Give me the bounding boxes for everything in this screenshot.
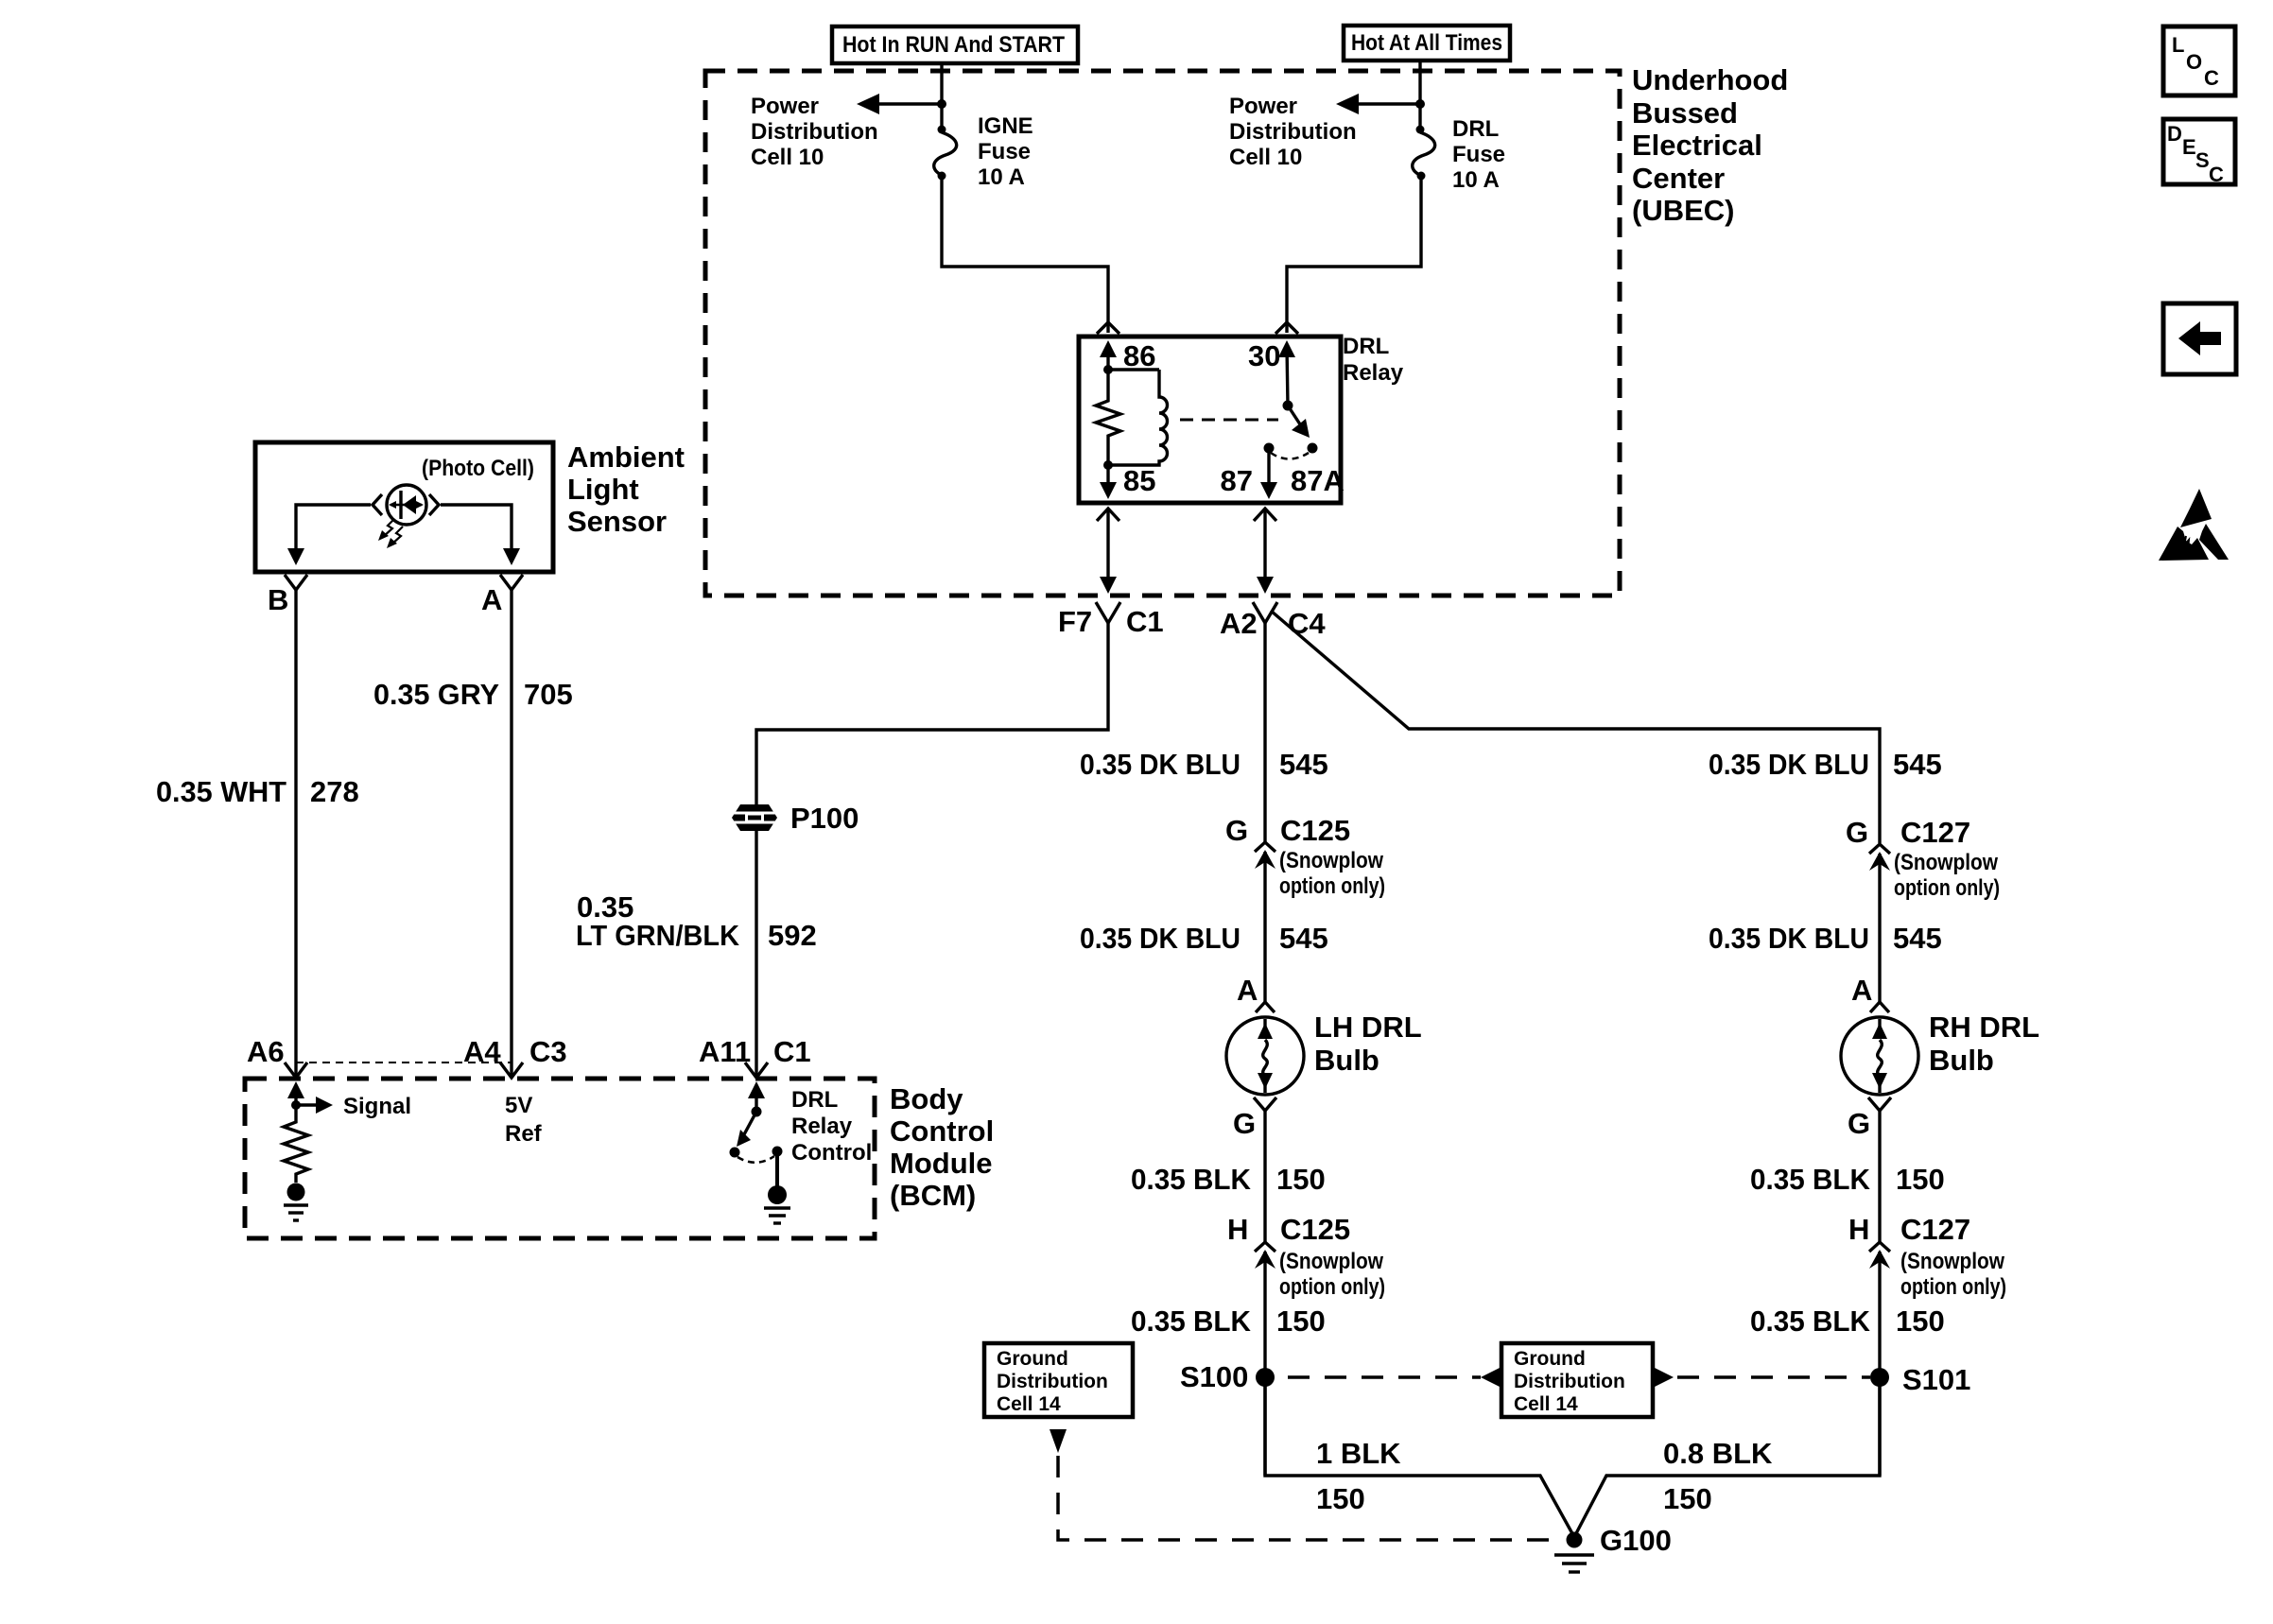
wire A2 to LH DRL bulb column xyxy=(1263,623,1266,843)
dashed wire S100 to ground dist box xyxy=(1288,1375,1481,1379)
svg-text:Fuse: Fuse xyxy=(978,139,1031,164)
svg-text:278: 278 xyxy=(310,775,359,808)
wire coil top xyxy=(1108,368,1159,371)
svg-text:C1: C1 xyxy=(773,1035,811,1068)
wire power distribution tap (left) xyxy=(862,102,942,105)
svg-text:A11: A11 xyxy=(699,1035,751,1068)
svg-text:option only): option only) xyxy=(1279,1274,1385,1300)
label 1 BLK 150 xyxy=(1316,1437,1401,1515)
arrowhead at UBEC border (left) xyxy=(1100,577,1117,594)
connector fork below sensor pin A xyxy=(500,575,523,590)
inductor relay coil xyxy=(1108,370,1168,465)
svg-text:B: B xyxy=(268,583,288,616)
svg-text:545: 545 xyxy=(1279,748,1328,781)
label Body Control Module (BCM) xyxy=(890,1082,994,1212)
arrowhead to S101 xyxy=(1653,1367,1674,1388)
svg-text:0.35 DK BLU: 0.35 DK BLU xyxy=(1080,922,1241,955)
wire A2/C4 diagonal branch to RH column xyxy=(1271,611,1880,843)
label F7 / C1 xyxy=(1058,605,1164,638)
lamp LH DRL Bulb xyxy=(1226,1017,1304,1095)
junction dot at DRL tap xyxy=(1415,99,1425,109)
svg-text:Bulb: Bulb xyxy=(1929,1044,1994,1077)
connector fork below RH bulb (pin G) xyxy=(1868,1097,1891,1111)
fuse DRL Fuse 10 A xyxy=(1413,126,1435,181)
relay box xyxy=(1079,337,1341,503)
svg-text:0.35 WHT: 0.35 WHT xyxy=(156,775,286,808)
splice S100 xyxy=(1256,1368,1275,1387)
wire DRL fuse to relay pin 30 xyxy=(1287,176,1421,333)
label 5V Ref xyxy=(505,1093,543,1147)
node Hot In RUN And START xyxy=(832,26,1078,63)
wire pin87 to UBEC border xyxy=(1263,509,1266,580)
contact 87 dot xyxy=(1264,443,1275,454)
svg-text:(Snowplow: (Snowplow xyxy=(1279,1249,1383,1274)
svg-text:Distribution: Distribution xyxy=(1514,1371,1625,1392)
label LH DRL Bulb xyxy=(1314,1011,1422,1077)
dashed connector link A6-A4 xyxy=(296,1062,512,1063)
contact dot right (BCM) xyxy=(772,1147,783,1157)
svg-text:option only): option only) xyxy=(1900,1274,2006,1300)
arrowhead left (power distribution right) xyxy=(1336,94,1359,114)
svg-text:0.35 BLK: 0.35 BLK xyxy=(1750,1304,1871,1338)
svg-text:Hot At All Times: Hot At All Times xyxy=(1351,30,1502,56)
connector fork below relay pin 85 xyxy=(1097,509,1119,521)
svg-text:Bussed: Bussed xyxy=(1632,96,1738,130)
svg-text:A2: A2 xyxy=(1220,607,1258,640)
svg-text:Distribution: Distribution xyxy=(1229,119,1357,145)
svg-text:G: G xyxy=(1225,814,1248,847)
wire sensor A to BCM A4 xyxy=(510,590,512,1078)
label 0.35 DK BLU 545 (RH lower) xyxy=(1709,922,1942,955)
label 0.35 DK BLU 545 (RH upper) xyxy=(1709,748,1942,781)
photocell internal circuit wires xyxy=(296,505,371,558)
svg-text:Control: Control xyxy=(791,1140,872,1166)
connector chevron above relay pin 86 xyxy=(1097,322,1119,334)
svg-text:DRL: DRL xyxy=(1452,116,1499,142)
svg-text:Signal: Signal xyxy=(343,1094,411,1119)
svg-text:(Photo Cell): (Photo Cell) xyxy=(422,456,534,481)
label DRL Relay Control xyxy=(791,1087,872,1166)
svg-text:A: A xyxy=(1851,974,1872,1007)
svg-text:150: 150 xyxy=(1316,1482,1365,1515)
svg-text:Cell 10: Cell 10 xyxy=(1229,145,1302,170)
wire LH bulb G down xyxy=(1263,1111,1266,1242)
node Ground Distribution Cell 14 (center) xyxy=(1501,1343,1653,1417)
svg-text:Power: Power xyxy=(751,94,819,119)
svg-text:S100: S100 xyxy=(1180,1360,1248,1393)
photocell diode xyxy=(389,491,424,519)
photocell circle xyxy=(387,485,426,525)
connector fork BCM pin A6 xyxy=(285,1063,307,1078)
svg-text:Cell 14: Cell 14 xyxy=(1514,1393,1578,1415)
svg-text:0.35 DK BLU: 0.35 DK BLU xyxy=(1709,922,1869,955)
connector C125 (lower, pin H) xyxy=(1227,1213,1385,1300)
wire C125 to S100 xyxy=(1263,1252,1266,1476)
label Power Distribution Cell 10 (right) xyxy=(1229,94,1357,170)
label DRL Relay xyxy=(1343,334,1404,386)
svg-text:C125: C125 xyxy=(1280,1213,1350,1246)
pin 30 arrow xyxy=(1248,339,1295,406)
connector A2 C4 fork xyxy=(1253,602,1277,623)
node Ground Distribution Cell 14 (left) xyxy=(984,1343,1133,1417)
connector fork BCM pin A4 xyxy=(500,1063,523,1078)
wire from Hot In RUN And START to IGNE fuse xyxy=(940,63,943,132)
svg-text:150: 150 xyxy=(1663,1482,1712,1515)
svg-text:(Snowplow: (Snowplow xyxy=(1900,1249,2004,1274)
label 0.35 WHT 278 xyxy=(156,775,359,808)
svg-text:C127: C127 xyxy=(1900,1213,1970,1246)
svg-text:LH DRL: LH DRL xyxy=(1314,1011,1422,1044)
connector C127 (lower, pin H) xyxy=(1848,1213,2006,1300)
svg-text:G: G xyxy=(1233,1107,1256,1140)
svg-text:L: L xyxy=(2172,33,2184,57)
svg-text:A: A xyxy=(481,583,502,616)
contact 87A dot xyxy=(1308,443,1318,454)
svg-text:C: C xyxy=(2204,66,2219,90)
svg-text:H: H xyxy=(1227,1213,1248,1246)
label 0.35 BLK 150 (LH lower) xyxy=(1131,1304,1326,1338)
svg-text:0.35 DK BLU: 0.35 DK BLU xyxy=(1080,748,1241,781)
switch arm arrowhead xyxy=(1292,419,1310,438)
svg-text:DRL: DRL xyxy=(1343,334,1389,359)
resistor BCM pull-down xyxy=(284,1105,308,1183)
dashed actuator link xyxy=(1180,419,1278,422)
lamp RH DRL Bulb xyxy=(1841,1017,1918,1095)
svg-text:C125: C125 xyxy=(1280,814,1350,847)
BCM internal ground (left) xyxy=(284,1183,308,1221)
switch arm xyxy=(1288,406,1304,430)
switch arm arrowhead (BCM) xyxy=(737,1130,751,1147)
junction dot pin86 xyxy=(1103,365,1113,374)
arrowhead Signal xyxy=(316,1097,333,1114)
svg-text:Bulb: Bulb xyxy=(1314,1044,1379,1077)
svg-text:30: 30 xyxy=(1248,339,1280,372)
fuse IGNE Fuse 10 A xyxy=(934,126,957,181)
svg-text:Control: Control xyxy=(890,1114,994,1148)
pin 86 arrow xyxy=(1100,339,1155,372)
label 0.35 BLK 150 (RH lower) xyxy=(1750,1304,1945,1338)
arrowhead down from left ground dist box xyxy=(1050,1429,1067,1453)
svg-text:Center: Center xyxy=(1632,162,1725,195)
BCM dashed border xyxy=(245,1079,875,1238)
svg-text:Distribution: Distribution xyxy=(751,119,878,145)
label 0.35 DK BLU 545 (LH upper) xyxy=(1080,748,1328,781)
svg-text:RH DRL: RH DRL xyxy=(1929,1011,2039,1044)
sensor pin B arrow xyxy=(287,548,304,565)
label Power Distribution Cell 10 (left) xyxy=(751,94,878,170)
switch arm (BCM) xyxy=(743,1112,756,1136)
svg-text:A: A xyxy=(1237,974,1258,1007)
svg-text:Light: Light xyxy=(567,473,639,506)
label A11 / C1 xyxy=(699,1035,811,1068)
wire sensor B to BCM A6 xyxy=(294,590,297,1078)
wire S100 to G100 xyxy=(1265,1377,1574,1537)
connector fork below relay pin 87 xyxy=(1254,509,1276,521)
label RH DRL Bulb xyxy=(1929,1011,2039,1077)
svg-text:(BCM): (BCM) xyxy=(890,1179,976,1212)
resistor (relay coil suppression) xyxy=(1096,370,1120,465)
svg-text:Sensor: Sensor xyxy=(567,505,667,538)
svg-text:0.35 BLK: 0.35 BLK xyxy=(1131,1163,1252,1196)
icon DESC box xyxy=(2163,119,2235,186)
wire contact to ground (BCM) xyxy=(775,1151,779,1187)
UBEC label text xyxy=(1632,63,1788,227)
svg-text:Relay: Relay xyxy=(791,1114,853,1139)
svg-text:S101: S101 xyxy=(1902,1363,1970,1396)
label IGNE Fuse 10 A xyxy=(978,113,1033,190)
svg-text:545: 545 xyxy=(1279,922,1328,955)
svg-text:Ambient: Ambient xyxy=(567,441,685,474)
junction dot at IGNE tap xyxy=(937,99,946,109)
sensor box xyxy=(255,442,553,572)
node Hot At All Times xyxy=(1344,26,1510,60)
label 0.35 DK BLU 545 (LH lower) xyxy=(1080,922,1328,955)
svg-text:Hot In RUN And START: Hot In RUN And START xyxy=(842,32,1065,58)
wire S101 to G100 xyxy=(1574,1377,1880,1537)
switch pivot dot xyxy=(1283,401,1293,411)
svg-text:Cell 14: Cell 14 xyxy=(997,1393,1061,1415)
svg-text:(UBEC): (UBEC) xyxy=(1632,194,1735,227)
connector fork below sensor pin B xyxy=(285,575,307,590)
svg-text:592: 592 xyxy=(768,919,817,952)
svg-text:545: 545 xyxy=(1893,748,1942,781)
BCM signal input arrow up xyxy=(287,1081,304,1105)
splice P100 grommet xyxy=(732,804,777,831)
svg-text:Cell 10: Cell 10 xyxy=(751,145,824,170)
label 0.35 GRY 705 xyxy=(373,678,573,711)
wire C127 to S101 xyxy=(1878,1252,1881,1476)
svg-text:F7: F7 xyxy=(1058,605,1092,638)
wire from Hot At All Times to DRL fuse xyxy=(1418,60,1421,132)
wire RH bulb G down xyxy=(1878,1111,1881,1242)
label 0.35 BLK 150 (RH upper) xyxy=(1750,1163,1945,1196)
connector fork below LH bulb (pin G) xyxy=(1254,1097,1276,1111)
label DRL Fuse 10 A xyxy=(1452,116,1505,193)
label 0.35 LT GRN/BLK 592 xyxy=(576,890,817,952)
svg-text:150: 150 xyxy=(1896,1304,1945,1338)
svg-text:0.35 BLK: 0.35 BLK xyxy=(1750,1163,1871,1196)
label 0.8 BLK 150 xyxy=(1663,1437,1773,1515)
svg-text:150: 150 xyxy=(1276,1163,1326,1196)
svg-text:10 A: 10 A xyxy=(978,164,1025,190)
connector chevron right of photocell xyxy=(429,494,439,515)
svg-text:Power: Power xyxy=(1229,94,1297,119)
svg-text:Ref: Ref xyxy=(505,1121,543,1147)
svg-text:O: O xyxy=(2186,50,2202,74)
BCM internal ground (right) xyxy=(764,1185,790,1223)
svg-text:Electrical: Electrical xyxy=(1632,129,1762,162)
arrowhead left (power distribution left) xyxy=(857,94,879,114)
connector C125 (upper) xyxy=(1225,814,1385,899)
light ray arrows xyxy=(378,519,403,548)
svg-text:H: H xyxy=(1848,1213,1869,1246)
svg-text:(Snowplow: (Snowplow xyxy=(1894,850,1998,875)
label A4 / C3 xyxy=(463,1035,567,1068)
svg-text:C3: C3 xyxy=(529,1035,567,1068)
switch pivot dot (BCM) xyxy=(752,1107,762,1117)
sensor pin A arrow xyxy=(503,548,520,565)
svg-text:C127: C127 xyxy=(1900,816,1970,849)
label 0.35 BLK 150 (LH upper) xyxy=(1131,1163,1326,1196)
svg-text:LT GRN/BLK: LT GRN/BLK xyxy=(576,919,740,952)
pin 87 arrow down xyxy=(1221,448,1345,499)
svg-text:Distribution: Distribution xyxy=(997,1371,1108,1392)
wire C127 to bulb A xyxy=(1878,854,1881,1002)
svg-text:0.8 BLK: 0.8 BLK xyxy=(1663,1437,1773,1470)
wire IGNE fuse to relay pin 86 xyxy=(942,176,1108,333)
svg-text:1 BLK: 1 BLK xyxy=(1316,1437,1401,1470)
svg-text:87: 87 xyxy=(1221,464,1253,497)
svg-text:D: D xyxy=(2167,122,2182,146)
dashed wire ground dist box to S101 xyxy=(1677,1375,1870,1379)
connector C127 (upper) xyxy=(1846,816,2000,901)
svg-text:G100: G100 xyxy=(1600,1524,1672,1557)
icon ESD warning triangle xyxy=(2159,489,2229,561)
svg-text:545: 545 xyxy=(1893,922,1942,955)
wire F7 to P100 branch xyxy=(756,623,1108,805)
svg-text:A6: A6 xyxy=(247,1035,285,1068)
BCM DRL relay control switch arrow up xyxy=(748,1081,765,1112)
dashed wire left box to G100 xyxy=(1058,1456,1560,1540)
svg-text:87A: 87A xyxy=(1291,464,1345,497)
arrowhead to S100 xyxy=(1481,1367,1501,1388)
connector fork above RH bulb xyxy=(1870,1002,1889,1012)
svg-text:option only): option only) xyxy=(1279,873,1385,899)
svg-text:P100: P100 xyxy=(790,802,859,835)
wire pin85 to UBEC border xyxy=(1106,509,1109,580)
wire P100 to BCM A11 xyxy=(755,831,757,1078)
svg-text:86: 86 xyxy=(1123,339,1155,372)
ground G100 xyxy=(1554,1532,1594,1573)
svg-text:(Snowplow: (Snowplow xyxy=(1279,848,1383,873)
arrowhead at UBEC border (right) xyxy=(1257,577,1274,594)
svg-text:0.35 DK BLU: 0.35 DK BLU xyxy=(1709,748,1869,781)
svg-text:S: S xyxy=(2195,148,2210,172)
svg-text:option only): option only) xyxy=(1894,875,2000,901)
svg-text:G: G xyxy=(1846,816,1868,849)
svg-text:Relay: Relay xyxy=(1343,360,1404,386)
svg-text:A4: A4 xyxy=(463,1035,501,1068)
icon LOC box xyxy=(2163,26,2235,95)
svg-text:5V: 5V xyxy=(505,1093,532,1118)
svg-text:Ground: Ground xyxy=(1514,1348,1586,1370)
svg-text:0.35 GRY: 0.35 GRY xyxy=(373,678,499,711)
svg-text:85: 85 xyxy=(1123,464,1155,497)
svg-text:E: E xyxy=(2182,135,2196,159)
connector chevron above relay pin 30 xyxy=(1275,322,1298,334)
svg-text:C: C xyxy=(2209,163,2224,186)
svg-text:DRL: DRL xyxy=(791,1087,838,1113)
svg-text:150: 150 xyxy=(1276,1304,1326,1338)
svg-text:Underhood: Underhood xyxy=(1632,63,1788,96)
pin 85 arrow down xyxy=(1100,464,1155,499)
svg-text:Fuse: Fuse xyxy=(1452,142,1505,167)
junction dot pin85 top xyxy=(1103,460,1113,470)
icon back arrow box xyxy=(2163,303,2236,374)
dashed throw arc (BCM) xyxy=(737,1156,774,1163)
svg-text:0.35 BLK: 0.35 BLK xyxy=(1131,1304,1252,1338)
svg-text:G: G xyxy=(1848,1107,1870,1140)
connector fork above LH bulb xyxy=(1256,1002,1275,1012)
svg-text:Module: Module xyxy=(890,1147,993,1180)
connector F7 C1 fork xyxy=(1096,602,1120,623)
svg-text:Body: Body xyxy=(890,1082,963,1115)
wire C125 to bulb A xyxy=(1263,852,1266,1002)
svg-text:705: 705 xyxy=(524,678,573,711)
svg-text:10 A: 10 A xyxy=(1452,167,1500,193)
wire signal arrow xyxy=(296,1103,322,1106)
connector fork BCM pin A11 xyxy=(745,1063,768,1078)
contact dot left (BCM) xyxy=(730,1148,740,1158)
UBEC dashed border xyxy=(705,71,1620,596)
label Ambient Light Sensor xyxy=(567,441,685,538)
svg-text:C4: C4 xyxy=(1288,607,1326,640)
label A2 / C4 xyxy=(1220,607,1326,640)
svg-text:C1: C1 xyxy=(1126,605,1164,638)
connector chevron left of photocell xyxy=(373,494,382,515)
splice S101 xyxy=(1870,1368,1889,1387)
wire power distribution tap (right) xyxy=(1342,102,1420,105)
svg-text:IGNE: IGNE xyxy=(978,113,1033,139)
svg-text:150: 150 xyxy=(1896,1163,1945,1196)
junction dot signal xyxy=(291,1100,301,1110)
svg-text:Ground: Ground xyxy=(997,1348,1068,1370)
dashed throw arc xyxy=(1271,453,1309,459)
